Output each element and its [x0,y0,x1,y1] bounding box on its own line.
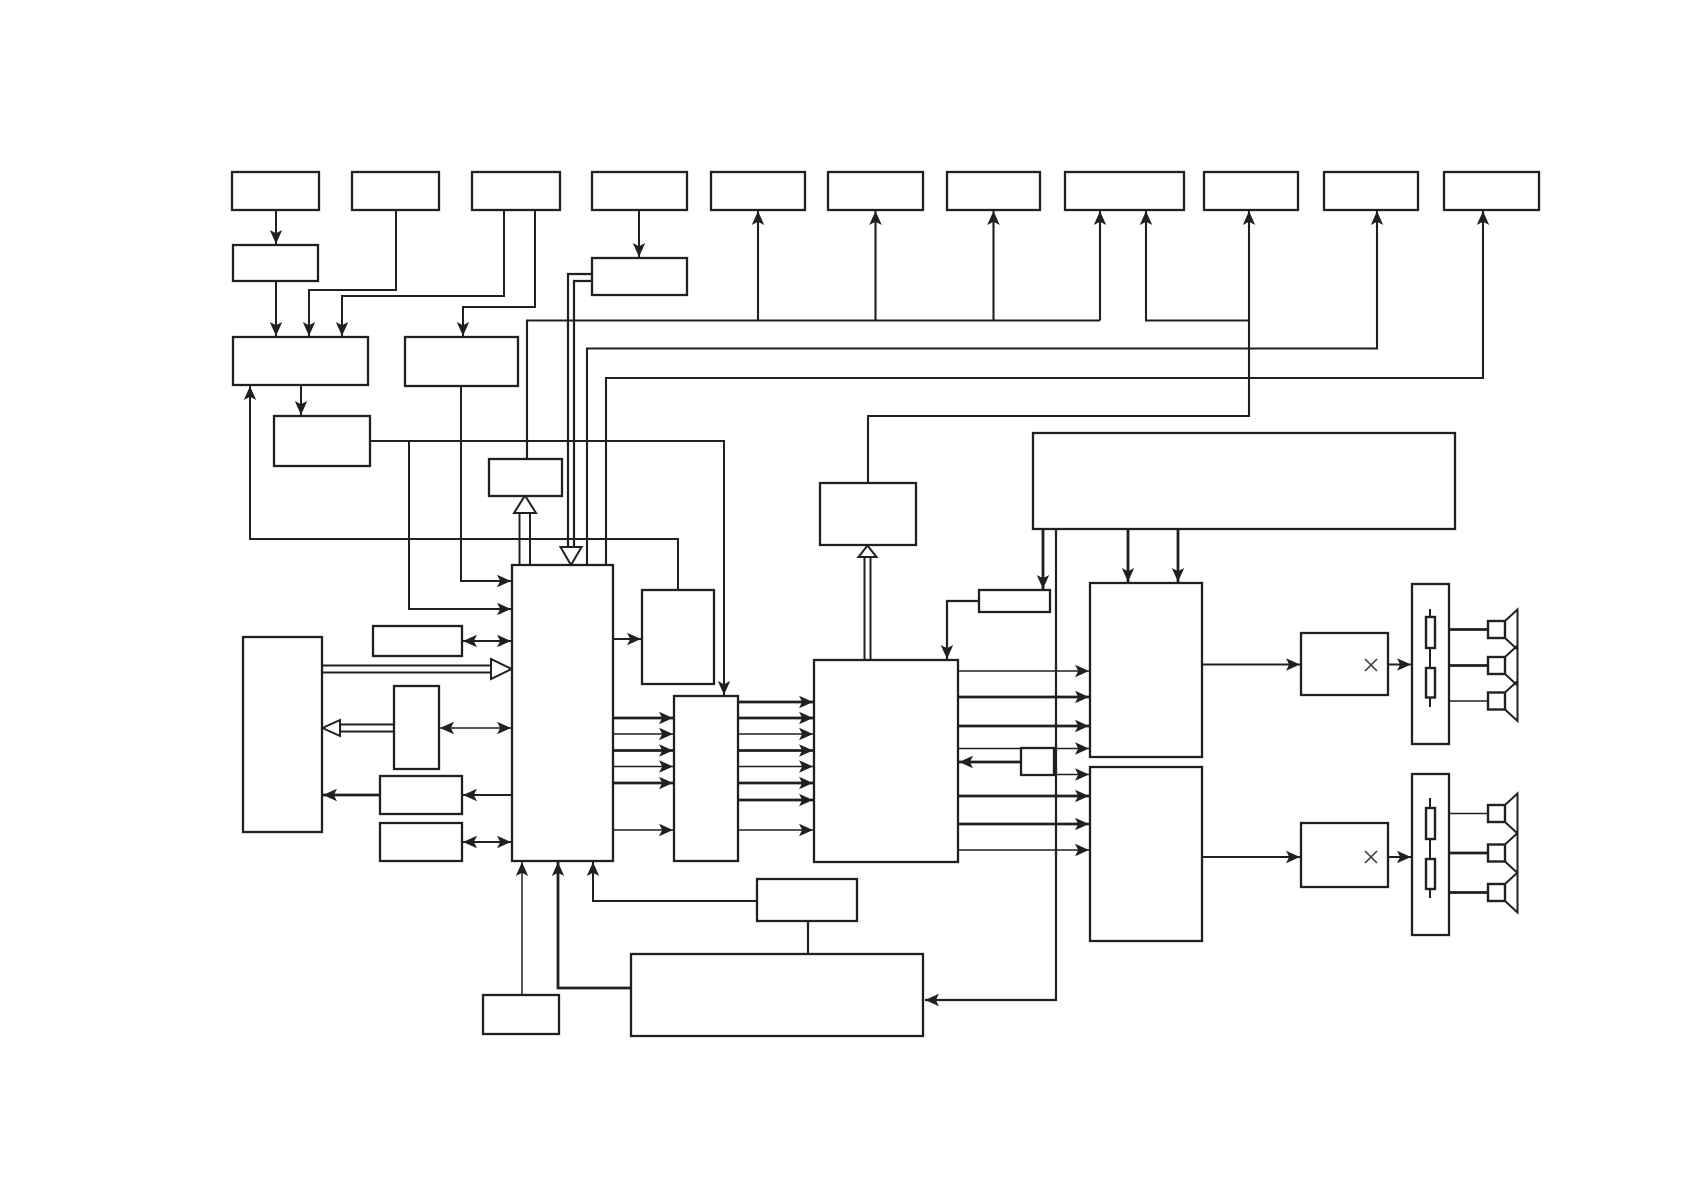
block O (left small 3) [380,776,462,814]
wire A2 to C [270,281,282,336]
wire BIG to K2 at y824 [958,818,1089,830]
block Q (above bottom bus) [757,879,857,921]
wire K2 to AMP2 [1202,851,1300,863]
wire D to CPU [461,386,511,587]
wire G to C feedback [244,386,678,590]
block T3 (top row 3) [472,172,560,210]
block AMP1 [1301,633,1388,695]
speaker LS6 (panel2 bottom) [1449,873,1518,913]
wire R to CPU [552,862,631,988]
wire CPU to G [613,633,641,645]
wire bus to T5 [752,211,764,321]
wire BIG to K1 at y671 [958,665,1089,677]
block LONG (wide top right) [1033,433,1455,529]
wire Q to CPU [587,862,757,901]
hollow arrow TALL to CPU [322,659,512,679]
wire T2 to C [303,210,396,336]
wire J to BIG [941,601,979,659]
block K1 (right upper) [1090,583,1202,757]
wire CPU to H at y783 [613,777,673,789]
block L (small between BIG and K) [1021,748,1054,775]
block G (right of CPU) [642,590,714,684]
wire E to H top [370,441,730,695]
hollow arrow CPU to F [514,496,536,566]
block SP-PANEL2 [1412,774,1449,935]
block TALL (left) [243,637,322,832]
hollow arrow IF to CPU [561,274,593,565]
resistor R1b SP1 [1426,668,1435,698]
multiplier symbol in AMP1 [1365,659,1377,671]
wire C to E [295,385,307,415]
block N (left small 2) [394,686,439,769]
bus CPU to T11 [606,211,1489,565]
block T5 (top row 5) [711,172,805,210]
block J (small above BIG right) [979,590,1050,612]
wire H to BIG at y830 [738,824,813,836]
wire CPU to H at y734 [613,728,673,740]
wire H to BIG at y750 [738,744,813,757]
wire L to BIG [959,756,1021,768]
block T7 (top row 7) [947,172,1040,210]
block T10 (top row 10) [1324,172,1418,210]
resistor chain line SP2 [1429,798,1431,898]
wire BIG to K1 at y748 [958,742,1089,755]
multiplier symbol in AMP2 [1365,851,1377,863]
wire CPU to H at y718 [613,712,673,724]
block D (row3 right) [405,337,518,386]
block T4 (top row 4) [592,172,687,210]
wire bus to T7 [987,211,1000,321]
wire O to TALL [323,789,380,801]
wire S to CPU [516,862,528,995]
block K2 (right lower) [1090,767,1202,941]
wire T1 to A2 [270,210,282,244]
wire AMP1 to SP1 [1388,658,1411,671]
block CPU (central tall) [512,565,613,861]
wire CPU to H at y830 [613,824,673,836]
resistor chain line SP1 [1429,609,1431,707]
bus F to top blocks T5-T8 [527,321,1100,460]
wire LONG to K1 b [1172,529,1184,582]
wire N-CPU double arrow [440,722,511,734]
block A2 (under T1) [233,245,318,281]
block T1 (top row 1) [232,172,319,210]
wire E branch to CPU [409,441,511,615]
block P (left small 4) [380,823,462,861]
block SP-PANEL1 [1412,584,1449,744]
wire bus to T6 [869,211,882,321]
wire H to BIG at y718 [738,712,813,724]
speaker LS2 (panel1 mid) [1449,646,1518,686]
wire H to BIG at y734 [738,728,813,740]
wire BIG to K1 at y726 [958,720,1089,732]
node T9 junction [1243,211,1255,225]
wire H to BIG at y766 [738,760,813,773]
block C (row3 left) [233,337,368,385]
wire CPU to H at y750 [613,744,673,757]
speaker LS3 (panel1 bottom) [1449,681,1518,721]
wire Q to R [807,921,809,954]
speaker LS4 (panel2 top) [1449,794,1518,834]
block R (bottom long) [631,954,923,1036]
wire T3 to C [336,210,504,336]
block S (bottom small) [483,995,559,1034]
wire H to BIG at y702 [738,696,813,708]
wire BIG to K2 at y850 [958,844,1089,856]
bus CPU to T10 [587,211,1383,565]
wire K1 to AMP1 [1202,658,1300,671]
wire LONG to R [925,529,1056,1006]
block AMP2 [1301,823,1388,887]
block T6 (top row 6) [828,172,923,210]
wire CPU to O [463,789,511,801]
hollow arrow N to TALL [323,720,395,736]
wire LONG to J [1037,529,1049,589]
wire P-CPU double arrow [463,836,511,848]
block T9 (top row 9) [1204,172,1298,210]
wire CPU to H at y766 [613,760,673,773]
block H (narrow vertical) [674,696,738,861]
block IF (under T4) [592,258,687,295]
block M (left small 1) [373,626,462,656]
block T11 (top row 11) [1444,172,1539,210]
wire H to BIG at y783 [738,777,813,789]
block F (above CPU) [489,459,562,496]
wire H to BIG at y800 [738,794,813,806]
wire AMP2 to SP2 [1388,851,1411,863]
wire T3 to D [457,210,535,336]
wire T4 to IF [633,210,645,257]
speaker LS5 (panel2 mid) [1449,833,1518,873]
block T8 (top row 8) [1065,172,1184,210]
resistor R2b SP2 [1426,859,1435,889]
wire L to K2 [1021,768,1089,781]
wire branch to T8 right [1140,211,1249,321]
wire M-CPU double arrow [463,635,511,647]
hollow arrow BIG to I [859,546,877,661]
resistor R2a SP2 [1426,808,1435,839]
wire BIG to K2 at y796 [958,790,1089,802]
wire LONG to K1 a [1122,529,1134,582]
resistor R1a SP1 [1426,617,1435,648]
block I (above BIG) [820,483,916,545]
wire bus to T8 left [1094,211,1106,321]
block T2 (top row 2) [352,172,439,210]
wire I to T9/T8 net [868,211,1249,483]
speaker LS1 (panel1 top) [1449,610,1518,650]
wire BIG to K1 at y697 [958,691,1089,703]
block E (below C) [274,416,370,466]
block BIG (video processor) [814,660,958,862]
